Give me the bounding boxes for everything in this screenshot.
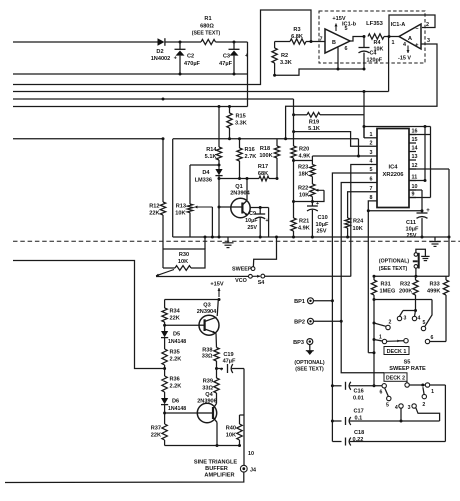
svg-text:D5: D5 xyxy=(173,332,180,338)
resistor R33 499K xyxy=(427,277,449,342)
svg-text:SWEEP RATE: SWEEP RATE xyxy=(389,366,426,372)
svg-text:5: 5 xyxy=(370,167,373,173)
svg-text:200K: 200K xyxy=(399,289,412,295)
svg-text:+: + xyxy=(426,208,430,214)
resistor R12 22K xyxy=(149,139,165,249)
wire bus y=138.7 left segment xyxy=(13,137,165,140)
switch deck2 contact 6 xyxy=(380,384,389,397)
binding post BP3 xyxy=(293,339,314,355)
svg-text:2.2K: 2.2K xyxy=(170,384,182,390)
wire Q4 base xyxy=(165,412,198,414)
svg-text:R20: R20 xyxy=(299,147,309,153)
wire rail jog to pin3 xyxy=(358,139,360,156)
wire bus y=91.5 xyxy=(13,90,389,93)
capacitor C4 120pF xyxy=(359,37,383,71)
ground symbol jack xyxy=(416,249,430,260)
svg-text:S4: S4 xyxy=(258,280,265,286)
svg-text:1N4148: 1N4148 xyxy=(168,339,186,345)
svg-text:AMPLIFIER: AMPLIFIER xyxy=(204,473,234,479)
svg-text:25V: 25V xyxy=(407,233,417,239)
svg-text:IC4: IC4 xyxy=(388,165,398,171)
svg-text:R23: R23 xyxy=(298,165,308,171)
resistor R21 4.9K xyxy=(291,218,310,237)
wire riser output node to bus xyxy=(388,37,390,92)
label S5 SWEEP RATE xyxy=(389,360,426,373)
svg-text:C19: C19 xyxy=(223,352,233,358)
svg-text:R30: R30 xyxy=(179,252,189,258)
+15V buffer arrow xyxy=(210,282,223,302)
svg-text:8: 8 xyxy=(370,195,373,201)
svg-text:10µF: 10µF xyxy=(245,218,258,224)
resistor R3 6.8K xyxy=(275,27,325,44)
svg-text:XR2206: XR2206 xyxy=(383,172,405,178)
resistor R16 2.7K xyxy=(237,139,257,180)
svg-text:15: 15 xyxy=(412,137,418,143)
diode D5 1N4148 xyxy=(161,331,186,349)
svg-text:−: − xyxy=(415,27,418,33)
IC U4 XR2206 body xyxy=(377,129,409,208)
svg-text:R31: R31 xyxy=(381,282,391,288)
svg-text:LF353: LF353 xyxy=(366,21,384,27)
switch deck1 contact 4 xyxy=(403,311,421,322)
svg-text:R32: R32 xyxy=(400,282,410,288)
wire riser to IC4 pin 1 xyxy=(363,92,365,138)
dashed box around IC1 xyxy=(319,11,425,63)
resistor R19 5.1K xyxy=(292,112,364,131)
switch deck2 contact 3 xyxy=(408,404,440,421)
diode D2 1N4002 xyxy=(151,38,171,62)
svg-text:D4: D4 xyxy=(202,170,210,176)
wire right edge of supply loop xyxy=(247,42,249,107)
resistor R32 200K xyxy=(399,277,418,313)
label 10 xyxy=(248,451,254,457)
switch deck1 contact 1 and rotor xyxy=(374,335,446,344)
svg-text:+: + xyxy=(316,201,319,207)
svg-text:R2: R2 xyxy=(281,53,288,59)
dashed divider line xyxy=(13,240,460,242)
svg-text:(OPTIONAL): (OPTIONAL) xyxy=(379,259,410,265)
wire pin 6 vertical B xyxy=(340,183,384,373)
svg-text:16: 16 xyxy=(412,129,418,135)
wire x=163 to R30 box xyxy=(162,249,164,268)
svg-text:22K: 22K xyxy=(149,211,159,217)
svg-text:VCO: VCO xyxy=(235,278,247,284)
svg-text:33Ω: 33Ω xyxy=(202,386,213,392)
wire deck1 left rail xyxy=(373,300,376,388)
svg-text:47µF: 47µF xyxy=(223,359,236,365)
svg-text:4: 4 xyxy=(418,316,421,322)
svg-text:10µF: 10µF xyxy=(316,222,329,228)
wire pin11 vertical xyxy=(409,127,427,183)
label optional jack xyxy=(379,259,410,273)
op-amp IC1-b xyxy=(320,22,357,54)
resistor R20 4.9K xyxy=(291,146,311,218)
resistor R15 3.3K xyxy=(227,107,247,140)
svg-text:18K: 18K xyxy=(299,172,309,178)
+15V supply arrow xyxy=(332,16,345,31)
svg-text:5: 5 xyxy=(423,320,426,326)
svg-text:+15V: +15V xyxy=(210,282,223,288)
svg-text:22K: 22K xyxy=(170,316,180,322)
svg-text:Q4: Q4 xyxy=(205,392,213,398)
transistor Q3 2N3904 xyxy=(197,303,219,336)
wire bus y=84.5 with riser to op-amp loop xyxy=(13,10,311,85)
svg-text:6.8K: 6.8K xyxy=(291,34,303,40)
svg-text:1: 1 xyxy=(379,335,382,341)
svg-text:C9: C9 xyxy=(249,211,256,217)
label LF353 xyxy=(366,21,384,27)
resistor R1 680ohm xyxy=(192,16,221,45)
wire left return branch xyxy=(13,261,165,369)
svg-text:R33: R33 xyxy=(430,282,440,288)
svg-text:R1: R1 xyxy=(204,16,211,22)
op-amp IC1-A xyxy=(391,22,421,49)
diode D4 LM336 xyxy=(195,169,223,237)
capacitor C16 0.01 xyxy=(332,382,382,402)
svg-text:Q1: Q1 xyxy=(235,184,242,190)
transistor Q4 2N3906 xyxy=(197,392,217,423)
wire Q3 emitter to R38 xyxy=(215,333,218,347)
svg-text:D2: D2 xyxy=(156,49,163,55)
switch deck2 rotor feed xyxy=(405,381,425,387)
svg-text:6: 6 xyxy=(345,46,348,52)
svg-text:1N4002: 1N4002 xyxy=(151,56,171,62)
wire buffer top rail xyxy=(165,299,219,301)
svg-text:10K: 10K xyxy=(178,259,188,265)
resistor R13 10K pot xyxy=(175,165,219,237)
wire pin 3 from R23 top xyxy=(312,155,377,158)
svg-text:470µF: 470µF xyxy=(184,61,201,67)
svg-text:0.01: 0.01 xyxy=(353,396,364,402)
svg-text:1: 1 xyxy=(431,389,434,395)
svg-text:-15 V: -15 V xyxy=(398,56,411,62)
wire output vertical to J4 xyxy=(243,369,245,466)
switch deck2 contact 1 xyxy=(423,383,446,442)
wire Q1 emitter to C9 xyxy=(250,206,268,209)
svg-text:R16: R16 xyxy=(245,147,255,153)
svg-text:BUFFER: BUFFER xyxy=(205,466,228,472)
svg-text:5: 5 xyxy=(345,26,348,32)
svg-text:10K: 10K xyxy=(226,433,236,439)
svg-text:6: 6 xyxy=(431,335,434,341)
svg-text:C3: C3 xyxy=(223,54,230,60)
wire right vertical pins16/9 xyxy=(409,127,431,198)
wire IC1-A pin 3 output loop xyxy=(286,38,437,139)
wire Q4 collector xyxy=(216,393,218,404)
svg-text:2N3906: 2N3906 xyxy=(197,399,217,405)
svg-text:BP3: BP3 xyxy=(293,340,304,346)
svg-text:5.1K: 5.1K xyxy=(308,126,320,132)
svg-text:10K: 10K xyxy=(299,193,309,199)
optional jack xyxy=(413,253,419,277)
svg-text:68K: 68K xyxy=(258,171,268,177)
wire pin 5 vertical A xyxy=(331,173,377,442)
svg-text:R21: R21 xyxy=(299,219,309,225)
svg-text:R15: R15 xyxy=(236,114,246,120)
svg-text:2: 2 xyxy=(422,402,425,408)
ground symbol mid xyxy=(223,237,234,248)
resistor R40 10K xyxy=(226,415,244,447)
svg-text:R24: R24 xyxy=(353,219,364,225)
capacitor C18 0.22 xyxy=(332,430,445,446)
wire pin10 to C11 xyxy=(409,190,422,211)
wire sweep line y=276.5 xyxy=(156,275,351,277)
wire top rail y=42 left segment xyxy=(13,41,158,43)
wire pin 4 to sweep xyxy=(351,165,377,277)
wire J4 to bottom rail xyxy=(5,472,244,482)
resistor R39 33ohm xyxy=(202,369,219,394)
wire y=126.5 above IC4 xyxy=(363,125,431,128)
switch deck1 contact 5 xyxy=(421,320,425,331)
wire Q3 base xyxy=(163,324,199,327)
wire R1 to corner xyxy=(218,41,248,44)
capacitor C2 470uF xyxy=(174,42,201,74)
svg-text:0.1: 0.1 xyxy=(355,416,363,422)
svg-text:7: 7 xyxy=(320,37,323,43)
svg-text:5: 5 xyxy=(386,403,389,409)
wire pin 6 stub xyxy=(337,48,339,70)
wire buffer bottom rail xyxy=(165,445,241,447)
svg-text:R36: R36 xyxy=(170,377,180,383)
svg-text:5.1K: 5.1K xyxy=(205,154,217,160)
resistor R24 10K xyxy=(345,218,364,239)
wire R20 column xyxy=(293,99,295,146)
svg-text:C10: C10 xyxy=(318,215,328,221)
wire node y=178.5 xyxy=(219,178,259,180)
wire Q3 collector xyxy=(217,299,218,316)
deck2 label box xyxy=(384,373,407,382)
svg-text:1: 1 xyxy=(370,132,373,138)
wire bus y=74 xyxy=(13,73,248,76)
svg-text:DECK 2: DECK 2 xyxy=(386,376,405,382)
capacitor C17 0.1 xyxy=(332,409,439,426)
ground symbol right xyxy=(430,237,441,246)
svg-text:4: 4 xyxy=(370,159,373,165)
capacitor C10 10uF 25V xyxy=(307,201,329,237)
wire pin 8 under IC xyxy=(368,201,423,212)
svg-text:7: 7 xyxy=(370,186,373,192)
svg-text:10: 10 xyxy=(412,184,418,190)
svg-text:120pF: 120pF xyxy=(367,58,383,64)
svg-text:R3: R3 xyxy=(293,27,300,33)
resistor R4 10K xyxy=(363,34,400,53)
svg-text:2: 2 xyxy=(426,22,429,28)
wire inner feedback loop to pin 6 xyxy=(273,68,364,77)
svg-text:10K: 10K xyxy=(374,47,384,53)
svg-text:10K: 10K xyxy=(353,226,363,232)
svg-text:R35: R35 xyxy=(170,350,180,356)
wire pin 1 from bus xyxy=(364,127,377,138)
svg-text:22K: 22K xyxy=(151,433,161,439)
binding post BP2 xyxy=(294,318,341,325)
wire pin12 to right rail xyxy=(409,169,451,277)
svg-text:4: 4 xyxy=(395,405,398,411)
svg-text:12: 12 xyxy=(412,163,418,169)
svg-text:C16: C16 xyxy=(354,389,364,395)
transistor Q1 2N3904 xyxy=(230,184,250,218)
switch S4 xyxy=(235,274,265,286)
svg-text:R12: R12 xyxy=(149,204,159,210)
wire pin 7 to R24 xyxy=(348,192,377,218)
wire bus y=99 xyxy=(13,98,294,101)
svg-text:R40: R40 xyxy=(226,426,236,432)
svg-text:33Ω: 33Ω xyxy=(202,354,213,360)
wire pin 2 from R20 top xyxy=(292,130,377,146)
wire emitter right branch xyxy=(268,208,270,238)
svg-text:0.22: 0.22 xyxy=(353,437,364,443)
switch deck2 contact 4 xyxy=(395,404,403,423)
page corner mark xyxy=(0,0,1,1)
svg-text:B: B xyxy=(332,40,336,46)
svg-text:R14: R14 xyxy=(206,147,217,153)
svg-text:10: 10 xyxy=(248,451,254,457)
svg-text:3: 3 xyxy=(370,150,373,156)
svg-text:BP1: BP1 xyxy=(294,299,305,305)
svg-text:3: 3 xyxy=(408,405,411,411)
svg-text:DECK 1: DECK 1 xyxy=(387,349,407,355)
svg-text:2: 2 xyxy=(370,141,373,147)
wire jog R20 to R23 xyxy=(294,160,313,162)
resistor R22 10K pot xyxy=(298,184,324,203)
svg-text:25V: 25V xyxy=(247,225,257,231)
switch deck2 contact 2 xyxy=(422,394,426,408)
svg-text:D6: D6 xyxy=(172,399,179,405)
svg-text:C11: C11 xyxy=(406,220,416,226)
svg-text:S5: S5 xyxy=(404,360,411,366)
wire R20 to C10 node xyxy=(294,201,313,203)
svg-text:R13: R13 xyxy=(176,204,186,210)
-15V supply arrow xyxy=(398,46,411,62)
svg-text:Q3: Q3 xyxy=(203,303,210,309)
svg-text:499K: 499K xyxy=(427,289,440,295)
svg-text:2: 2 xyxy=(389,320,392,326)
wire bus y=106.5 xyxy=(13,105,248,108)
svg-text:100K: 100K xyxy=(259,153,272,159)
wire box left edge x=172.7 xyxy=(172,139,174,237)
svg-text:2.2K: 2.2K xyxy=(170,357,182,363)
svg-text:1N4148: 1N4148 xyxy=(168,406,186,412)
svg-text:9: 9 xyxy=(412,192,415,198)
wire pin 8 feed vertical xyxy=(367,209,374,353)
svg-text:13: 13 xyxy=(412,154,418,160)
resistor R23 18K xyxy=(298,156,315,184)
svg-text:(SEE TEXT): (SEE TEXT) xyxy=(192,31,221,37)
wire R31 bottom to contact5 loop xyxy=(374,300,432,327)
resistor R2 3.3K xyxy=(272,42,292,76)
wire IC1-A feedback pin 2 xyxy=(389,15,435,37)
svg-text:C2: C2 xyxy=(187,54,194,60)
svg-text:2N3904: 2N3904 xyxy=(230,191,250,197)
wire R13 wiper xyxy=(195,206,214,239)
diode D6 1N4148 xyxy=(161,398,186,415)
svg-text:BP2: BP2 xyxy=(294,320,305,326)
resistor R14 5.1K xyxy=(205,107,222,170)
wire Q4 emitter xyxy=(216,422,219,447)
svg-text:3.3K: 3.3K xyxy=(280,60,292,66)
wire mid ground rail y=237 xyxy=(173,236,449,239)
svg-text:R4: R4 xyxy=(374,40,381,46)
svg-text:R39: R39 xyxy=(203,379,213,385)
svg-text:+: + xyxy=(220,367,223,373)
svg-text:1: 1 xyxy=(392,40,395,46)
terminal SWEEP xyxy=(232,236,278,273)
svg-text:3: 3 xyxy=(404,316,407,322)
wire R30 wiper arrow xyxy=(156,270,174,277)
resistor R35 2.2K xyxy=(162,349,181,376)
capacitor C19 47uF xyxy=(217,352,245,373)
connector J4 xyxy=(240,465,256,473)
IC4 left pin numbers xyxy=(370,132,373,201)
svg-text:680Ω: 680Ω xyxy=(200,24,214,30)
binding post BP1 xyxy=(294,298,332,305)
svg-text:R17: R17 xyxy=(258,164,268,170)
capacitor C3 47uF xyxy=(219,42,249,74)
capacitor C11 10uF 25V xyxy=(406,208,431,239)
wire Q1 base tap xyxy=(219,206,231,208)
wire sweep range top rail xyxy=(373,275,450,278)
svg-text:25V: 25V xyxy=(317,229,327,235)
wire rail y=138.8 xyxy=(173,137,359,140)
wire D2 to R1 xyxy=(165,41,201,44)
svg-text:LM336: LM336 xyxy=(195,178,212,184)
resistor R31 1MEG xyxy=(371,277,395,302)
svg-text:6: 6 xyxy=(370,177,373,183)
svg-text:4: 4 xyxy=(403,42,406,48)
svg-text:(SEE TEXT): (SEE TEXT) xyxy=(379,266,408,272)
svg-text:R19: R19 xyxy=(309,120,319,126)
resistor R36 2.2K xyxy=(162,376,181,398)
label optional BP3 xyxy=(294,360,325,373)
svg-text:14: 14 xyxy=(412,146,418,152)
svg-text:1MEG: 1MEG xyxy=(380,289,396,295)
svg-text:R18: R18 xyxy=(260,146,270,152)
svg-text:6: 6 xyxy=(380,390,383,396)
wire Q1 collector xyxy=(246,177,249,200)
svg-text:(OPTIONAL): (OPTIONAL) xyxy=(294,360,325,366)
svg-text:47µF: 47µF xyxy=(219,61,232,67)
svg-text:IC1-A: IC1-A xyxy=(391,22,406,28)
svg-text:10K: 10K xyxy=(175,211,185,217)
svg-text:C17: C17 xyxy=(354,409,364,415)
svg-text:SINE TRIANGLE: SINE TRIANGLE xyxy=(194,460,237,466)
svg-text:SWEEP: SWEEP xyxy=(232,267,252,273)
svg-text:C18: C18 xyxy=(354,430,364,436)
switch deck1 contact 2 xyxy=(374,320,392,330)
IC4 right pin stubs xyxy=(409,129,418,198)
svg-text:R34: R34 xyxy=(170,309,181,315)
svg-text:3: 3 xyxy=(427,38,430,44)
svg-text:(SEE TEXT): (SEE TEXT) xyxy=(295,367,324,373)
resistor R34 22K xyxy=(162,300,181,332)
resistor R37 22K xyxy=(151,414,168,446)
svg-text:J4: J4 xyxy=(250,468,256,474)
svg-text:2N3904: 2N3904 xyxy=(197,309,217,315)
switch deck2 contact 5 xyxy=(386,396,391,408)
label SINE TRIANGLE BUFFER AMPLIFIER xyxy=(194,460,237,479)
capacitor C9 10uF 25V xyxy=(245,208,268,238)
svg-text:2.7K: 2.7K xyxy=(245,154,257,160)
svg-text:11: 11 xyxy=(412,175,418,181)
deck1 label box xyxy=(384,347,409,355)
resistor R38 33ohm xyxy=(202,348,219,371)
resistor R30 10K pot box xyxy=(163,237,205,270)
svg-text:4.9K: 4.9K xyxy=(299,154,311,160)
svg-text:4.9K: 4.9K xyxy=(298,226,310,232)
switch deck1 contact 3 xyxy=(397,311,406,322)
svg-text:3.3K: 3.3K xyxy=(235,121,247,127)
resistor R18 100K xyxy=(259,139,279,180)
svg-text:R37: R37 xyxy=(151,426,161,432)
